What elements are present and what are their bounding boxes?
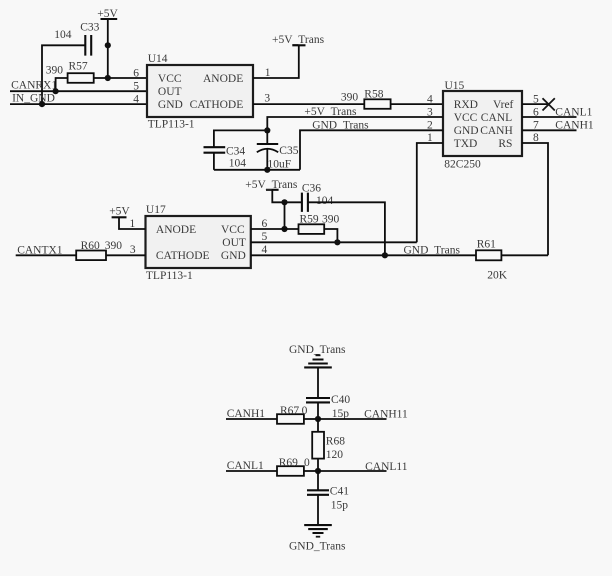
svg-text:R59: R59 — [300, 213, 319, 225]
power +5V_Trans — [272, 34, 325, 46]
net CANRX1 — [10, 79, 147, 91]
resistor R59 — [299, 213, 340, 234]
svg-text:+5V Trans: +5V Trans — [304, 106, 357, 118]
svg-text:ANODE: ANODE — [203, 73, 243, 85]
svg-text:GND Trans: GND Trans — [404, 245, 461, 257]
capacitor C35 — [257, 130, 299, 170]
svg-text:VCC: VCC — [158, 73, 182, 85]
capacitor C34 — [204, 146, 247, 170]
transceiver U15 82C250 — [443, 80, 522, 171]
wire Vref pin5 — [522, 103, 549, 105]
net GND Trans row — [300, 119, 443, 169]
power +5V_Trans at C36 — [245, 179, 302, 203]
svg-text:U17: U17 — [146, 204, 166, 216]
svg-text:IN_GND: IN_GND — [12, 93, 55, 105]
wire U14 anode to +5V_Trans — [253, 45, 299, 78]
svg-text:CANL11: CANL11 — [365, 461, 408, 473]
svg-text:CANL1: CANL1 — [555, 106, 592, 118]
svg-text:Vref: Vref — [493, 99, 514, 111]
svg-text:C40: C40 — [331, 394, 350, 406]
net CANL1 bottom — [226, 460, 277, 472]
wire R58 to U15 pin4 — [391, 103, 443, 105]
node OUT/R59 junction — [334, 239, 340, 245]
svg-text:ANODE: ANODE — [156, 224, 196, 236]
svg-text:C33: C33 — [80, 22, 99, 34]
capacitor C36 — [302, 182, 334, 212]
svg-text:C36: C36 — [302, 182, 321, 194]
svg-text:TLP113-1: TLP113-1 — [146, 270, 193, 282]
svg-text:CANH: CANH — [480, 125, 513, 137]
op-amp U17 optocoupler TLP113-1 — [146, 204, 251, 282]
net GND Trans row — [251, 245, 476, 257]
no-connect X on Vref — [543, 98, 555, 110]
wire pin6 row — [94, 77, 147, 79]
svg-text:TXD: TXD — [454, 138, 478, 150]
svg-text:C41: C41 — [330, 486, 349, 498]
power +5V at U17 — [109, 205, 145, 229]
svg-text:C34: C34 — [226, 146, 245, 158]
svg-text:0: 0 — [302, 405, 308, 417]
svg-text:R57: R57 — [69, 61, 88, 73]
svg-text:5: 5 — [262, 231, 268, 243]
svg-text:VCC: VCC — [454, 112, 478, 124]
svg-text:CANRX1: CANRX1 — [11, 79, 57, 91]
node C33/+5V junction — [105, 42, 111, 48]
svg-text:10uF: 10uF — [268, 159, 292, 171]
node CANH junction — [315, 416, 321, 422]
svg-text:GND: GND — [221, 250, 246, 262]
op-amp U14 optocoupler TLP113-1 — [147, 53, 253, 131]
node +5V_Trans junction — [281, 199, 287, 205]
svg-text:CANTX1: CANTX1 — [17, 244, 63, 256]
svg-text:GND_Trans: GND_Trans — [289, 344, 346, 356]
svg-text:GND Trans: GND Trans — [312, 119, 369, 131]
wire R60 to U17 cathode — [106, 254, 146, 256]
svg-text:15p: 15p — [331, 500, 349, 512]
wire U17 OUT row — [251, 241, 417, 243]
svg-text:R58: R58 — [364, 88, 383, 100]
wire cap rail bottom — [214, 169, 300, 171]
node CANRX1/R57 junction — [53, 88, 59, 94]
svg-text:104: 104 — [229, 158, 247, 170]
net CANH1 — [522, 120, 594, 132]
net IN_GND — [10, 93, 147, 105]
node CANL junction — [315, 468, 321, 474]
node VCC row junction — [281, 226, 287, 232]
svg-text:CANL1: CANL1 — [227, 460, 264, 472]
capacitor C41 — [307, 471, 349, 512]
net CANTX1 — [16, 244, 76, 256]
capacitor C40 — [306, 394, 350, 420]
svg-text:6: 6 — [133, 67, 139, 79]
resistor R68 — [312, 419, 345, 471]
wire C36 to GND row — [308, 202, 385, 255]
svg-text:GND_Trans: GND_Trans — [289, 540, 346, 552]
svg-text:GND: GND — [454, 125, 479, 137]
wire RS pin8 down — [522, 143, 548, 255]
resistor R67 — [277, 405, 308, 424]
svg-text:104: 104 — [54, 29, 71, 41]
svg-text:U15: U15 — [445, 80, 465, 92]
svg-text:CATHODE: CATHODE — [190, 99, 244, 111]
node pin6/+5V junction — [105, 75, 111, 81]
svg-text:0: 0 — [304, 457, 310, 469]
capacitor C33 — [54, 22, 99, 56]
svg-text:U14: U14 — [148, 53, 168, 65]
svg-text:CANH1: CANH1 — [555, 120, 594, 132]
resistor R61 — [476, 239, 508, 282]
wire R57 left jog — [56, 78, 68, 91]
svg-text:R60: R60 — [81, 240, 100, 252]
node rail bottom junction — [264, 167, 270, 173]
svg-text:4: 4 — [427, 93, 433, 105]
wire — [42, 45, 85, 104]
svg-text:R61: R61 — [477, 239, 496, 251]
wire R69 to node — [304, 470, 318, 472]
wire U14 cathode row — [253, 103, 364, 105]
wire cap rail top — [214, 130, 267, 147]
node rail top junction — [264, 127, 270, 133]
svg-text:390: 390 — [322, 213, 340, 225]
node GND row junction — [382, 252, 388, 258]
svg-text:390: 390 — [341, 92, 359, 104]
svg-text:3: 3 — [264, 93, 270, 105]
resistor R58 — [341, 88, 391, 109]
wire C34 bottom — [213, 153, 215, 170]
svg-text:CANL: CANL — [481, 112, 512, 124]
svg-text:CANH11: CANH11 — [364, 409, 408, 421]
power +5V — [97, 8, 118, 78]
net CANH11 — [318, 409, 408, 421]
resistor R60 — [76, 240, 122, 260]
wire C40 to CANH row — [317, 402, 319, 419]
wire R67 to node — [304, 418, 318, 420]
net CANH1 bottom — [226, 408, 277, 420]
net CANL11 — [318, 461, 408, 473]
svg-text:R67: R67 — [280, 405, 299, 417]
net CANL1 — [522, 106, 593, 118]
svg-text:RXD: RXD — [454, 99, 478, 111]
svg-text:82C250: 82C250 — [444, 159, 481, 171]
svg-text:390: 390 — [105, 240, 123, 252]
svg-text:R69: R69 — [279, 457, 298, 469]
svg-text:RS: RS — [498, 138, 512, 150]
svg-text:CATHODE: CATHODE — [156, 250, 210, 262]
svg-text:120: 120 — [326, 449, 344, 461]
wire R61 to RS — [501, 254, 548, 256]
svg-text:+5V: +5V — [97, 8, 118, 20]
svg-text:CANH1: CANH1 — [227, 408, 266, 420]
svg-text:+5V: +5V — [109, 205, 130, 217]
wire C41 to ground — [317, 495, 319, 525]
svg-text:R68: R68 — [326, 435, 345, 447]
svg-text:GND: GND — [158, 99, 183, 111]
ground GND_Trans top — [289, 344, 346, 398]
svg-text:104: 104 — [316, 195, 334, 207]
node IN_GND/C33 junction — [39, 101, 45, 107]
ground GND_Trans bottom — [289, 525, 346, 552]
svg-text:390: 390 — [46, 65, 64, 77]
svg-text:OUT: OUT — [222, 237, 246, 249]
svg-text:+5V_Trans: +5V_Trans — [245, 179, 298, 191]
svg-text:+5V_Trans: +5V_Trans — [272, 34, 325, 46]
svg-text:4: 4 — [133, 93, 139, 105]
wire down to VCC row — [284, 202, 286, 229]
svg-text:TLP113-1: TLP113-1 — [148, 119, 195, 131]
resistor R57 — [46, 61, 94, 83]
wire R59 right jog — [324, 229, 337, 242]
svg-text:5: 5 — [133, 80, 139, 92]
svg-text:C35: C35 — [279, 145, 298, 157]
svg-text:20K: 20K — [487, 270, 508, 282]
wire TXD down to U17 OUT row — [417, 143, 443, 242]
svg-text:VCC: VCC — [221, 224, 245, 236]
wire U17 VCC row — [251, 228, 299, 230]
resistor R69 — [277, 457, 310, 476]
svg-text:OUT: OUT — [158, 86, 182, 98]
net +5V Trans row — [267, 106, 443, 130]
